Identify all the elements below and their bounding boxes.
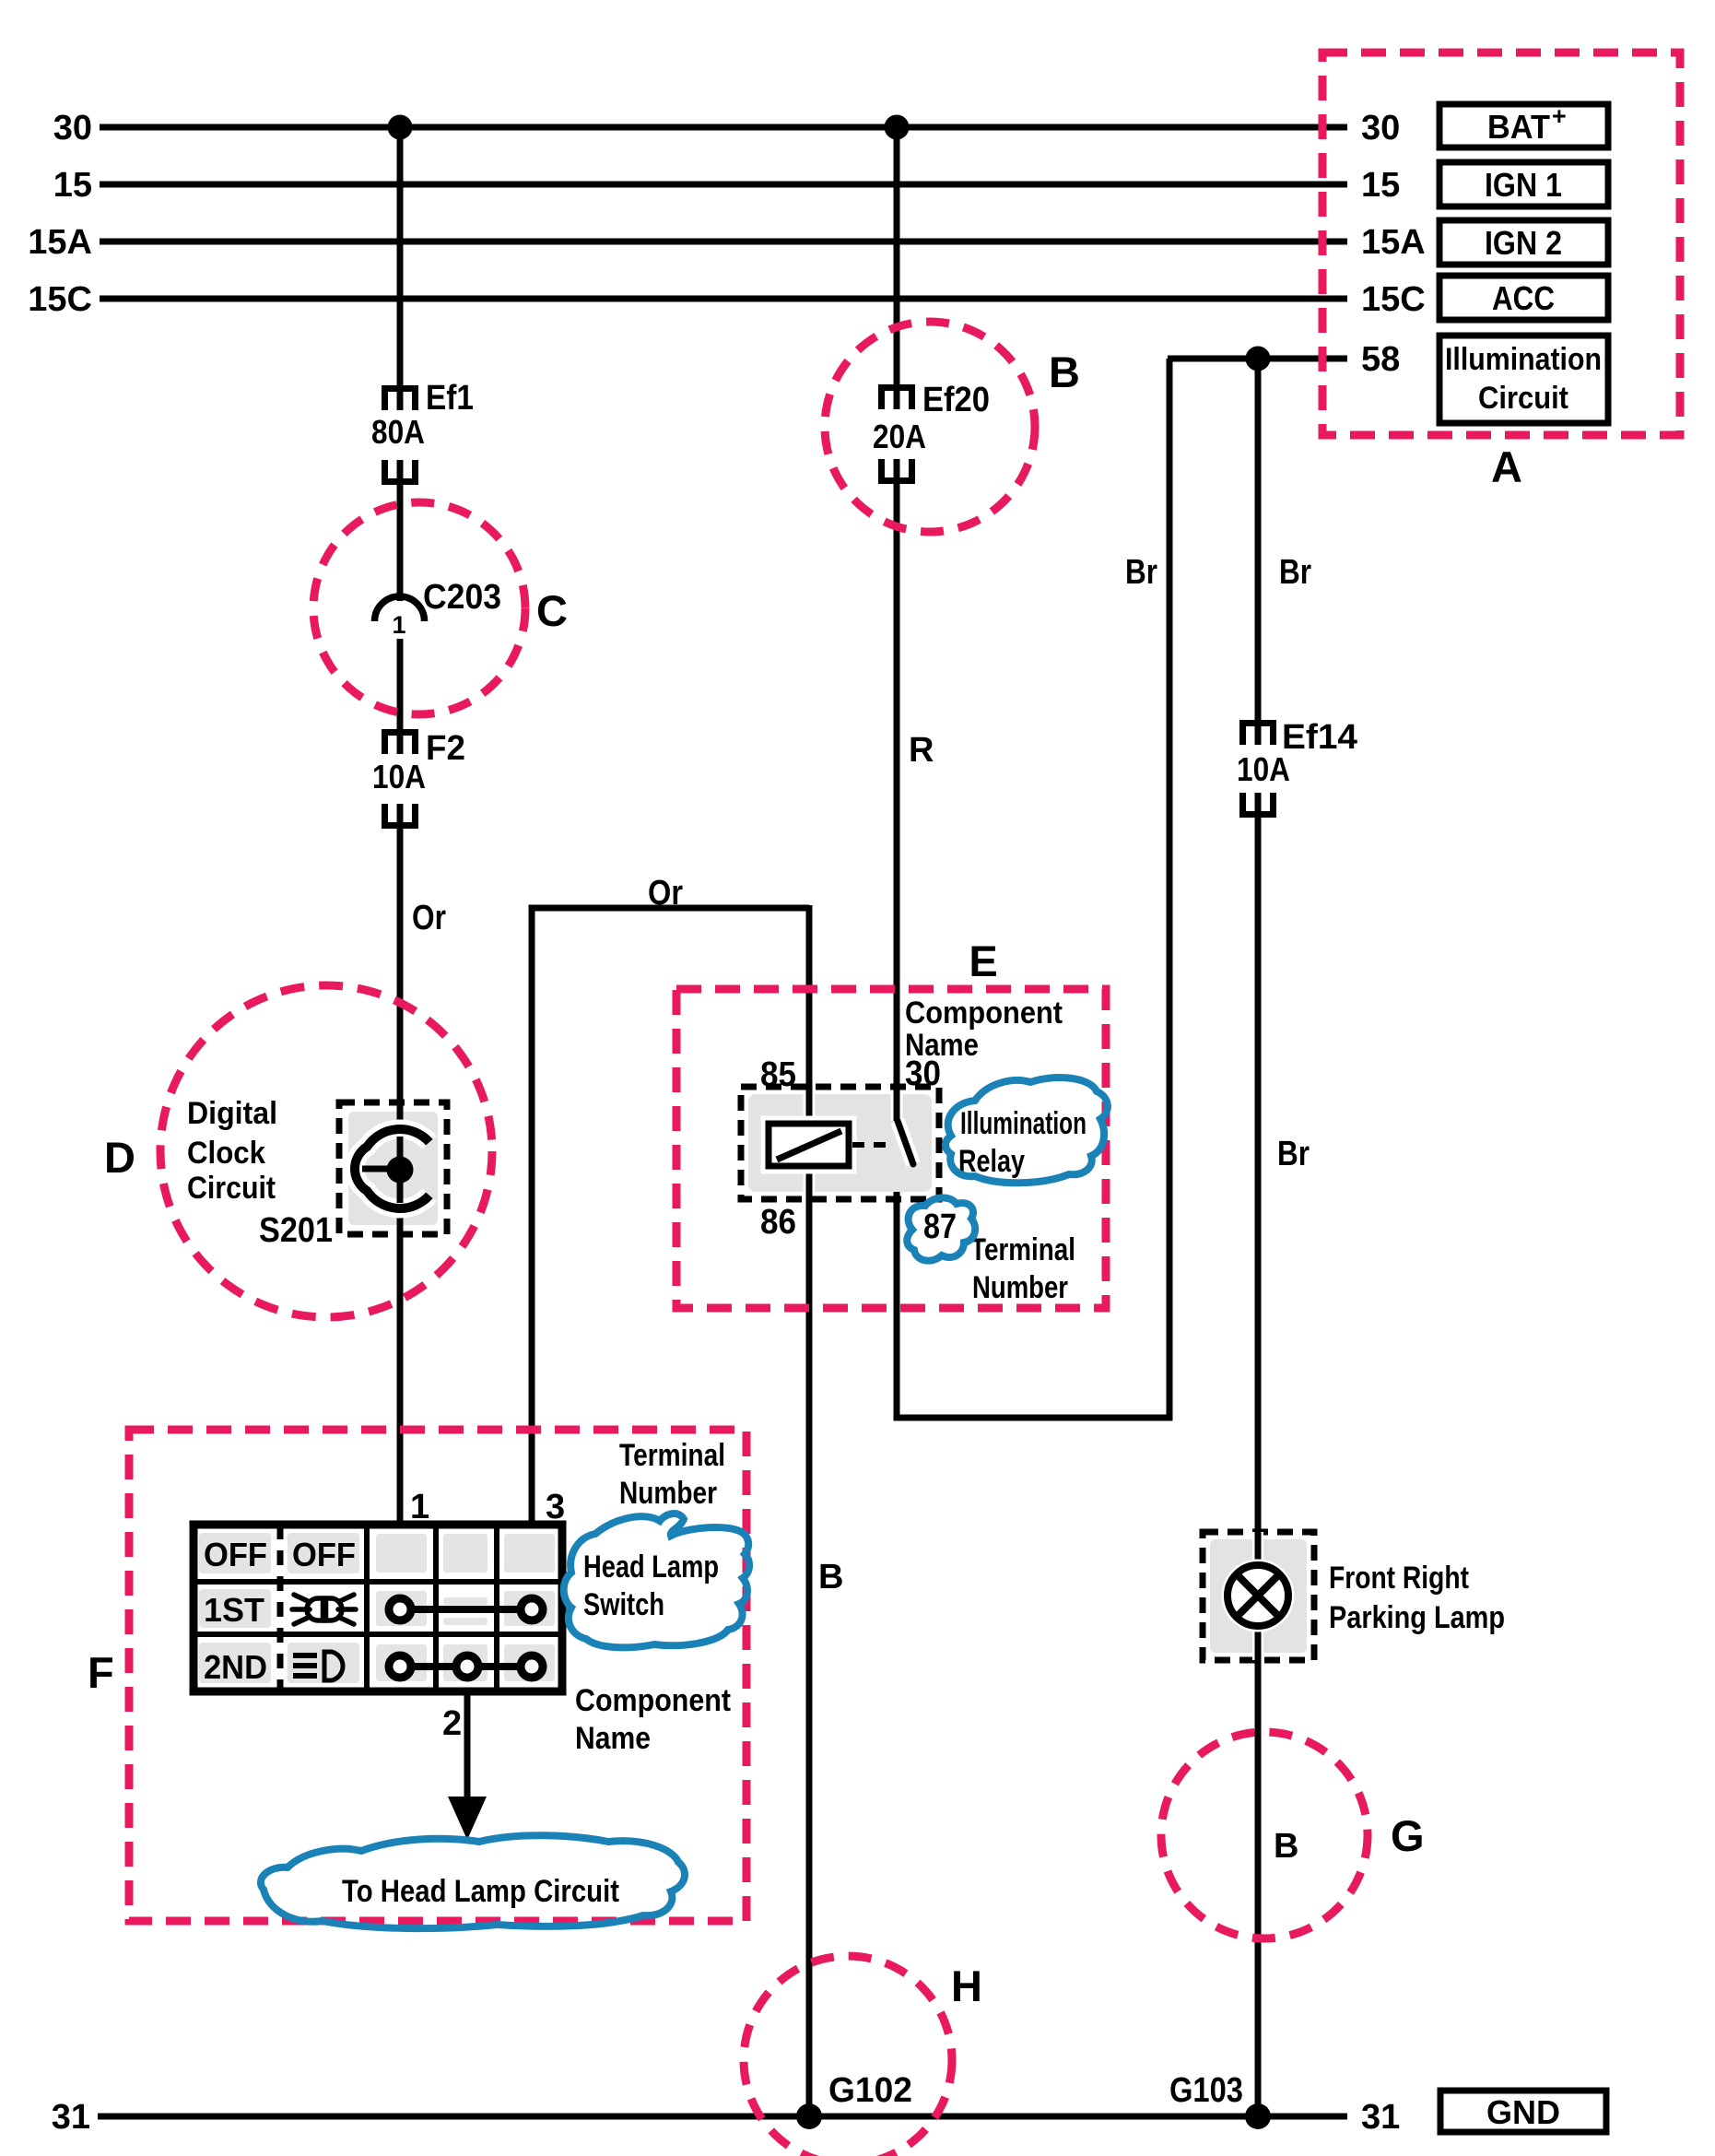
svg-text:10A: 10A <box>1237 750 1290 788</box>
svg-text:15: 15 <box>1361 166 1400 205</box>
svg-text:80A: 80A <box>371 413 425 451</box>
svg-text:G103: G103 <box>1169 2071 1243 2110</box>
svg-text:BAT: BAT <box>1487 108 1550 146</box>
blue annotation blob around 87 <box>907 1197 975 1260</box>
svg-text:3: 3 <box>546 1488 565 1526</box>
svg-text:Or: Or <box>648 874 683 913</box>
svg-text:IGN 1: IGN 1 <box>1485 166 1562 204</box>
svg-text:85: 85 <box>760 1055 796 1094</box>
svg-text:Name: Name <box>905 1028 979 1063</box>
blue annotation blob around Illumination Relay <box>946 1078 1108 1183</box>
relay K (illumination relay) <box>741 1054 957 1246</box>
svg-text:To Head Lamp Circuit: To Head Lamp Circuit <box>342 1874 619 1909</box>
svg-text:Number: Number <box>972 1270 1068 1305</box>
connector C203 <box>375 578 502 639</box>
svg-text:Clock: Clock <box>187 1136 265 1171</box>
bus 15C <box>28 280 1425 319</box>
splice S201 <box>259 1102 447 1250</box>
svg-text:C203: C203 <box>423 578 501 617</box>
switch contacts row 2ND (1-2-3) <box>389 1655 543 1678</box>
svg-text:Switch: Switch <box>583 1587 664 1622</box>
wire Or jog to switch terminal 3 <box>532 908 809 1523</box>
fuse Ef20 20A <box>873 381 990 484</box>
bus 31 <box>52 2098 1401 2137</box>
svg-text:E: E <box>969 937 997 985</box>
svg-text:OFF: OFF <box>204 1536 267 1573</box>
svg-text:15A: 15A <box>28 223 92 262</box>
junction node G102 on bus31 <box>796 2103 822 2129</box>
svg-text:30: 30 <box>1361 109 1400 147</box>
svg-text:Ef20: Ef20 <box>922 381 990 419</box>
svg-text:2: 2 <box>442 1704 462 1743</box>
wire relay 87 to net 58 <box>897 359 1169 1418</box>
wire bus30 to fuse Ef1 <box>397 127 404 388</box>
svg-text:F: F <box>88 1648 114 1697</box>
wire F2 to splice S201 <box>397 826 404 1126</box>
FUSE BOX DETAIL (example A) <box>1322 53 1680 491</box>
svg-text:Illumination: Illumination <box>1445 342 1602 377</box>
svg-text:R: R <box>909 731 934 770</box>
terminal box IGN 2 <box>1439 220 1608 265</box>
icon: park lamp symbol row 1ST <box>292 1595 356 1624</box>
svg-text:Component: Component <box>575 1683 731 1718</box>
svg-text:1: 1 <box>392 611 405 639</box>
wire net58 to fuse Ef14 <box>1255 359 1262 723</box>
terminal box BAT+ <box>1439 104 1608 147</box>
wire C203 to fuse F2 <box>397 639 404 732</box>
svg-text:A: A <box>1491 442 1522 491</box>
svg-text:Illumination: Illumination <box>960 1106 1087 1141</box>
icon: head lamp symbol row 2ND <box>293 1653 317 1679</box>
fuse Ef14 10A <box>1237 718 1357 818</box>
svg-text:Or: Or <box>412 899 446 937</box>
svg-text:Br: Br <box>1125 553 1157 592</box>
wire Ef20 to relay terminal 30 <box>894 481 900 1121</box>
svg-text:Parking Lamp: Parking Lamp <box>1329 1600 1505 1635</box>
circle H (ground G102 highlight) <box>744 1956 982 2156</box>
svg-text:1ST: 1ST <box>204 1591 264 1629</box>
circle C (connector C203 highlight) <box>313 502 568 714</box>
junction node on bus30 at Ef20 branch <box>885 115 910 140</box>
svg-text:G: G <box>1391 1811 1425 1860</box>
wire terminal 2 to head lamp circuit (arrow) <box>464 1691 471 1799</box>
svg-text:2ND: 2ND <box>204 1648 267 1686</box>
junction node G103 on bus31 <box>1245 2103 1271 2129</box>
svg-text:31: 31 <box>1361 2098 1400 2137</box>
svg-text:20A: 20A <box>873 418 926 455</box>
svg-text:15: 15 <box>53 166 92 205</box>
svg-text:F2: F2 <box>426 729 465 768</box>
junction node on net58 at Ef14 branch <box>1246 347 1271 371</box>
svg-text:C: C <box>536 586 568 635</box>
svg-text:GND: GND <box>1486 2093 1560 2131</box>
svg-text:86: 86 <box>760 1203 796 1242</box>
svg-text:Br: Br <box>1277 1135 1310 1173</box>
cell shading <box>199 1533 555 1683</box>
svg-text:ACC: ACC <box>1492 279 1555 317</box>
wire Ef1 to connector C203 <box>397 482 404 601</box>
terminal box ACC <box>1439 276 1608 320</box>
wire S201 to switch terminal 1 <box>397 1211 404 1523</box>
svg-text:31: 31 <box>52 2098 90 2137</box>
svg-text:D: D <box>104 1133 135 1182</box>
svg-text:30: 30 <box>53 109 92 147</box>
svg-text:15C: 15C <box>28 280 92 319</box>
svg-text:+: + <box>1552 102 1567 130</box>
svg-text:Head Lamp: Head Lamp <box>583 1549 719 1585</box>
svg-text:G102: G102 <box>828 2071 912 2110</box>
wire parking lamp to ground G103 <box>1255 1624 1262 2116</box>
svg-text:15C: 15C <box>1361 280 1426 319</box>
HEAD LAMP SWITCH (example F) <box>194 1488 565 1840</box>
wire bus30 to fuse Ef20 <box>894 127 900 387</box>
net 58 <box>1168 340 1400 379</box>
svg-text:H: H <box>951 1962 982 2010</box>
svg-text:Terminal: Terminal <box>619 1438 725 1473</box>
circle G (wire colour highlight) <box>1161 1732 1425 1938</box>
box E (relay example highlight) <box>676 937 1106 1308</box>
terminal box Illumination Circuit <box>1439 336 1608 423</box>
bus 30 <box>53 109 1401 147</box>
blue annotation blob around To Head Lamp Circuit <box>261 1835 685 1928</box>
box A (fuse and relay box outline) <box>1322 53 1680 435</box>
svg-text:Component: Component <box>905 996 1063 1031</box>
wire Or jog to relay terminal 85 <box>806 905 813 1126</box>
svg-text:87: 87 <box>923 1208 957 1246</box>
svg-text:B: B <box>1274 1827 1298 1866</box>
bus 15 <box>53 166 1401 205</box>
switch contacts row 1ST (1-3) <box>389 1598 543 1620</box>
wire relay 86 to ground G102 <box>806 1163 813 2116</box>
svg-text:10A: 10A <box>372 758 426 795</box>
svg-text:Front Right: Front Right <box>1329 1561 1469 1596</box>
fuse Ef1 80A <box>371 379 474 485</box>
blue annotation blob around Head Lamp Switch <box>564 1514 749 1647</box>
svg-text:1: 1 <box>410 1488 429 1526</box>
svg-text:Name: Name <box>575 1721 651 1756</box>
wire Ef14 to parking lamp <box>1255 817 1262 1567</box>
box F (switch example highlight) <box>88 1430 746 1921</box>
svg-text:Circuit: Circuit <box>1478 381 1568 416</box>
svg-text:B: B <box>1049 348 1080 396</box>
circle B (fuse Ef20 highlight) <box>825 322 1080 532</box>
bus 15A <box>28 223 1425 262</box>
lamp E (front right parking lamp) <box>1203 1532 1505 1660</box>
svg-text:Terminal: Terminal <box>970 1232 1075 1267</box>
svg-text:S201: S201 <box>259 1211 333 1250</box>
svg-text:Digital: Digital <box>187 1096 277 1131</box>
svg-text:15A: 15A <box>1361 223 1426 262</box>
switch S (head lamp switch) table <box>194 1525 562 1691</box>
svg-text:B: B <box>818 1558 843 1596</box>
relay contact blade 30-87 <box>891 1094 903 1121</box>
svg-text:Ef1: Ef1 <box>426 379 474 418</box>
relay coil <box>769 1124 849 1166</box>
svg-text:58: 58 <box>1361 340 1400 379</box>
svg-text:OFF: OFF <box>292 1536 356 1573</box>
svg-text:Br: Br <box>1279 553 1311 592</box>
relay link (dashed actuation line) <box>852 1142 892 1148</box>
terminal box IGN 1 <box>1439 162 1608 206</box>
svg-text:Number: Number <box>619 1476 717 1511</box>
fuse F2 10A <box>372 729 465 829</box>
svg-text:IGN 2: IGN 2 <box>1485 224 1562 262</box>
svg-text:Circuit: Circuit <box>187 1171 276 1206</box>
svg-text:Ef14: Ef14 <box>1282 718 1357 757</box>
GND box <box>1440 2091 1606 2132</box>
circle D (splice S201 highlight) <box>104 985 492 1317</box>
junction node on bus30 at Ef1 branch <box>388 115 413 140</box>
